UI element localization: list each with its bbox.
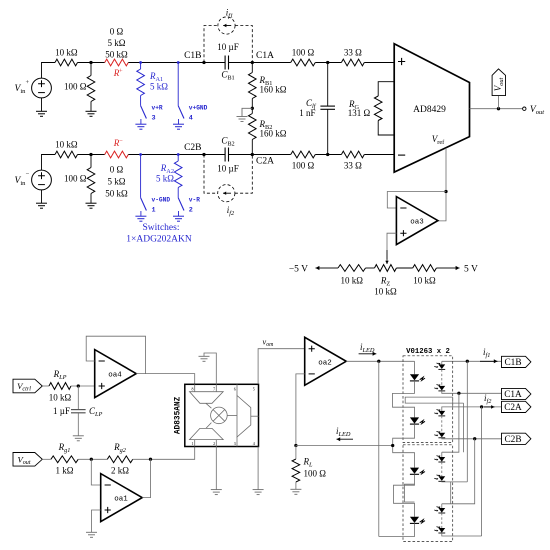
ground below Vin- <box>36 203 47 208</box>
node C2B bus <box>473 437 476 440</box>
wire CB1 to C1A <box>229 62 253 64</box>
svg-text:−: − <box>26 171 30 178</box>
svg-text:10 kΩ: 10 kΩ <box>55 48 78 58</box>
switch 1 lower stub <box>140 211 142 216</box>
arrow if1 <box>480 359 498 363</box>
wire Clf top <box>327 63 329 107</box>
oa3 plus glyph <box>400 230 406 236</box>
wire Rg2 to AD835 pin1 <box>133 447 195 460</box>
svg-text:3: 3 <box>152 115 156 123</box>
value 10k left <box>340 276 363 286</box>
node C2A <box>251 153 254 156</box>
svg-text:3: 3 <box>234 441 236 446</box>
svg-text:8: 8 <box>192 387 194 392</box>
wire 10k to node A2 <box>78 154 105 156</box>
U2 internal pin6 lead <box>236 384 238 395</box>
svg-text:+: + <box>26 79 30 86</box>
oa4 minus glyph <box>99 360 105 362</box>
wire hairpin b drop <box>463 403 465 452</box>
svg-text:1 nF: 1 nF <box>299 108 315 118</box>
tag C2B <box>502 433 531 445</box>
label vom <box>263 338 274 349</box>
photodiode PD4a <box>434 506 445 513</box>
svg-text:CB1: CB1 <box>221 70 234 82</box>
wire oa3 plus to wiper <box>387 233 396 259</box>
svg-text:AD8429: AD8429 <box>413 105 446 115</box>
tag C1A <box>502 388 531 400</box>
ground U2 pin4 <box>253 490 264 495</box>
svg-text:C2B: C2B <box>504 435 521 445</box>
U2 multiplier circle <box>211 407 228 424</box>
svg-text:if2: if2 <box>484 393 492 405</box>
wire Vin- to 10k <box>42 155 56 171</box>
capacitor CLP 1uF <box>71 410 86 413</box>
label RB2 <box>259 119 273 131</box>
node C1B <box>202 61 205 64</box>
svg-text:1 kΩ: 1 kΩ <box>56 466 74 476</box>
wire RB mid to ground <box>242 108 252 116</box>
wire Vin- to ground <box>41 190 43 203</box>
U1 plus input glyph <box>398 58 405 65</box>
ground below Vin+ <box>36 111 47 116</box>
value 5k row1 <box>108 38 126 48</box>
svg-text:5 kΩ: 5 kΩ <box>150 82 168 92</box>
node Vout junction <box>497 107 500 110</box>
tag C2A <box>502 401 531 413</box>
dashed link if2 right <box>235 155 252 194</box>
svg-text:10 kΩ: 10 kΩ <box>374 287 397 297</box>
ground RL <box>290 489 301 494</box>
wire LED left bus <box>378 361 380 536</box>
svg-text:v-GND: v-GND <box>152 197 171 204</box>
wire switch 1 tap <box>140 155 142 198</box>
dashed link PD3a-PD3b <box>441 462 443 476</box>
node C2A bus <box>480 405 483 408</box>
U2 internal pin1 lead <box>194 440 196 447</box>
wire CLP top <box>77 386 79 409</box>
current source if2 <box>218 185 235 202</box>
label Clf <box>306 98 317 110</box>
svg-text:10 kΩ: 10 kΩ <box>55 140 78 150</box>
svg-text:0 Ω: 0 Ω <box>110 27 124 37</box>
wire RG top stub <box>378 82 394 96</box>
node Vref junction <box>444 190 447 193</box>
node A2 junction <box>89 153 92 156</box>
wire RB1 to mid node <box>251 99 253 114</box>
label v+R <box>152 105 163 112</box>
wire oa4 output to AD835 pin8 <box>136 374 195 385</box>
svg-text:1: 1 <box>192 441 194 446</box>
wire RB2 to C2A <box>251 140 253 155</box>
value CB1 10uF <box>217 42 238 52</box>
svg-text:oa1: oa1 <box>114 496 128 504</box>
wire 10k to +5V <box>436 267 448 269</box>
ground below 100 row2 <box>86 203 97 208</box>
capacitor CB1 10uF <box>225 56 228 70</box>
value 33 row1 <box>344 48 362 58</box>
wire Vin+ to ground <box>41 98 43 111</box>
svg-text:CLP: CLP <box>89 406 103 418</box>
wire CB2 to C2A <box>229 154 253 156</box>
op-amp oa4 <box>95 350 137 398</box>
svg-text:RL: RL <box>303 457 314 469</box>
wire PD1a to C1B tag <box>442 360 502 362</box>
node RB mid <box>251 107 254 110</box>
resistor RG 131 <box>374 96 382 121</box>
wire -5V to 10k <box>327 267 338 269</box>
label Vin+ <box>15 84 27 95</box>
arrow if2 <box>223 192 231 195</box>
node LED bus top <box>377 360 380 363</box>
resistor 10k left <box>338 265 366 272</box>
svg-text:−: − <box>119 138 123 145</box>
U2 internal pin8 lead <box>194 384 196 391</box>
label 100 row2 <box>64 174 87 184</box>
wire C1A to 100 filter <box>252 62 290 64</box>
U2 internal pin2 lead <box>215 440 217 447</box>
resistor RB2 160k <box>249 114 257 140</box>
wire RA1 to switch 3 <box>140 96 142 106</box>
wire Clf bottom <box>327 109 329 154</box>
svg-text:33 Ω: 33 Ω <box>344 161 362 171</box>
label v+GND <box>189 105 208 112</box>
photodiode PD1b <box>434 384 445 391</box>
oa2 minus glyph <box>309 373 315 375</box>
node C2B <box>202 153 205 156</box>
wire LED1 cathode jog <box>393 381 415 418</box>
U2 label AD835ANZ <box>174 396 182 434</box>
tag Vout input <box>13 453 42 467</box>
svg-text:if1: if1 <box>226 8 233 20</box>
svg-text:oa3: oa3 <box>410 219 424 227</box>
label switch 2 <box>189 207 193 215</box>
svg-text:oa2: oa2 <box>318 359 332 367</box>
ground CLP <box>73 436 84 441</box>
svg-text:6: 6 <box>234 387 236 392</box>
capacitor Clf 1nF <box>320 106 335 109</box>
wire Vin+ to 10k resistor <box>42 63 56 79</box>
svg-text:10 kΩ: 10 kΩ <box>49 393 72 403</box>
value CB2 10uF <box>217 164 238 174</box>
value RL 100 <box>304 469 327 479</box>
svg-text:C1A: C1A <box>256 51 274 61</box>
wire RA2 to switch 2 <box>177 188 179 198</box>
resistor 33 row1 <box>341 59 364 66</box>
svg-text:if2: if2 <box>227 205 235 217</box>
arrow if2 <box>484 405 495 409</box>
label R- <box>113 138 120 148</box>
svg-text:4: 4 <box>253 441 255 446</box>
resistor 33 row2 <box>341 151 364 158</box>
wire LED3 cathode jog inner <box>405 484 415 502</box>
label if1 <box>226 8 233 20</box>
label -5V <box>289 265 308 275</box>
label CLP <box>89 406 103 418</box>
label C1A <box>256 51 274 61</box>
wire PD1b bottom to C1A <box>442 391 502 393</box>
tag Vout text <box>493 77 505 91</box>
value RB2 160k <box>260 129 287 139</box>
label C2A <box>256 157 274 167</box>
wire LED2 cathode jog <box>393 424 415 468</box>
svg-text:Vin: Vin <box>15 84 27 95</box>
value 0 ohm row2 <box>110 165 124 175</box>
svg-text:100 Ω: 100 Ω <box>64 174 87 184</box>
LED D1 <box>410 374 425 381</box>
tag Vctrl text <box>17 381 31 393</box>
LED D2 <box>410 417 425 424</box>
wire Vref pin down <box>438 148 446 221</box>
ground U2 pin7 <box>199 356 210 361</box>
U2 internal link Y <box>206 423 212 429</box>
svg-text:2 kΩ: 2 kΩ <box>111 466 129 476</box>
label RB1 <box>259 75 273 87</box>
label switch 3 <box>152 115 156 123</box>
resistor RLP 10k <box>49 383 71 390</box>
dashed link PD4a-PD4b <box>441 513 443 528</box>
svg-text:C2A: C2A <box>504 403 522 413</box>
svg-text:C1B: C1B <box>184 51 201 61</box>
label C2B <box>184 143 201 153</box>
wire 33 to amp plus <box>364 62 394 64</box>
ground switch 3 <box>135 124 146 129</box>
wire hairpin a drop <box>452 397 454 407</box>
switch 3 blade <box>141 106 147 119</box>
U2 internal link buffer-out <box>251 415 259 417</box>
dashed link if2 left <box>204 155 218 194</box>
junction switch 1 tap <box>139 153 142 156</box>
svg-text:v+R: v+R <box>152 105 163 112</box>
voltage source Vin+ <box>32 78 52 98</box>
oa4 plus glyph <box>99 383 105 389</box>
U2 input trapezoid Y <box>190 428 224 439</box>
svg-text:5: 5 <box>253 387 255 392</box>
op-amp U1 AD8429 <box>394 44 469 173</box>
label R- sup <box>119 138 123 145</box>
resistor 100 filter row2 <box>291 151 316 158</box>
optocoupler package 2 dashed box <box>403 445 453 542</box>
svg-text:2: 2 <box>213 441 215 446</box>
wire 100 row1 to ground <box>90 102 92 112</box>
photodiode PD1a <box>434 363 445 370</box>
label 10k row2 <box>55 140 78 150</box>
wire RB1 leads <box>251 63 253 73</box>
U2 pin number 4 <box>253 441 255 446</box>
switch 2 blade <box>178 198 184 211</box>
label oa1 <box>114 496 128 504</box>
U1 minus input glyph <box>398 154 405 156</box>
wire node g1 to oa1 minus <box>91 459 100 485</box>
label RA1 <box>149 71 163 83</box>
svg-text:160 kΩ: 160 kΩ <box>260 129 287 139</box>
ground switch 2 <box>173 216 184 221</box>
U2 pin number 6 <box>234 387 236 392</box>
svg-text:5 kΩ: 5 kΩ <box>108 177 126 187</box>
svg-text:100 Ω: 100 Ω <box>292 161 315 171</box>
resistor Rg1 1k <box>51 456 78 463</box>
wire 100 to node lf2 <box>315 154 341 156</box>
wire Rg1 to node1 <box>78 458 107 460</box>
oa3 minus glyph <box>400 207 406 209</box>
optocoupler package 1 dashed box <box>403 356 453 443</box>
node iLED return junction <box>391 444 394 447</box>
label 10k row1 <box>55 48 78 58</box>
node C1A bus <box>457 392 460 395</box>
wire 33 to amp minus <box>364 154 394 156</box>
svg-text:1 µF: 1 µF <box>53 406 70 416</box>
label Vin- <box>15 176 27 187</box>
label RG <box>348 99 360 111</box>
svg-text:160 kΩ: 160 kΩ <box>260 85 287 95</box>
value 50k row2 <box>105 189 128 199</box>
svg-text:50 kΩ: 50 kΩ <box>105 50 128 60</box>
value 100 filter row1 <box>292 48 315 58</box>
value Rg1 1k <box>56 466 74 476</box>
resistor R+ programmable <box>105 59 129 66</box>
wire LED4 cathode bottom <box>379 523 415 536</box>
value RG 131 <box>348 108 371 118</box>
label v-R <box>189 197 200 204</box>
value 5k row2 <box>108 177 126 187</box>
wire oa2 output to LED1 <box>346 360 414 362</box>
U2 input trapezoid X <box>190 392 224 404</box>
svg-text:oa4: oa4 <box>108 372 122 380</box>
value 100 filter row2 <box>292 161 315 171</box>
current source if1 <box>218 17 235 34</box>
U2 internal link X <box>206 403 212 408</box>
svg-text:RLP: RLP <box>53 369 67 381</box>
op-amp oa1 <box>101 474 143 522</box>
wire LED3 cathode jog outer <box>394 474 415 516</box>
wire Vout to Rg1 <box>42 458 51 460</box>
value RLP 10k <box>49 393 72 403</box>
terminal Vout <box>523 107 526 110</box>
svg-text:v+GND: v+GND <box>189 105 208 112</box>
label R+ <box>113 68 120 78</box>
wire C1B to CB1 <box>204 62 225 64</box>
svg-text:50 kΩ: 50 kΩ <box>105 189 128 199</box>
node lf1 <box>326 61 329 64</box>
wire 10k to node A1 <box>78 62 105 64</box>
svg-text:1: 1 <box>152 207 156 215</box>
svg-text:0 Ω: 0 Ω <box>110 165 124 175</box>
svg-text:5 V: 5 V <box>464 265 478 275</box>
voltage source Vin- <box>32 170 52 190</box>
resistor RL 100 <box>292 459 300 482</box>
wire RL bottom <box>295 482 297 489</box>
switch 4 blade <box>178 106 184 119</box>
ground switch 4 <box>173 124 184 129</box>
wire PD2b bottom to C2B <box>442 438 502 439</box>
dashed link if1 right <box>235 26 252 63</box>
svg-text:iLED: iLED <box>336 426 351 438</box>
wire U2 pin2 ground <box>215 447 217 490</box>
label if2 tag <box>484 393 492 405</box>
U2 output buffer <box>237 396 251 438</box>
op-amp oa3 <box>396 197 438 245</box>
svg-text:if1: if1 <box>483 347 490 359</box>
label C1B <box>184 51 201 61</box>
multiplier U2 AD835ANZ box <box>185 384 259 446</box>
ground below 100 row1 <box>86 111 97 116</box>
node lf2 <box>326 153 329 156</box>
U2 pin number 1 <box>192 441 194 446</box>
U2 pin number 5 <box>253 387 255 392</box>
wire PD3b bottom lead <box>442 480 468 483</box>
capacitor CB2 10uF <box>225 148 228 162</box>
label oa4 <box>108 372 122 380</box>
svg-text:vom: vom <box>263 338 274 349</box>
wire bus C1B to PD3b <box>466 361 468 482</box>
wire RLP to oa4 plus <box>71 385 95 387</box>
U2 internal pin7 lead <box>215 384 217 391</box>
label switch 4 <box>189 115 193 123</box>
label CB1 <box>221 70 234 82</box>
wire bus C1A to PD3a <box>442 393 459 452</box>
value 33 row2 <box>344 161 362 171</box>
ground U2 pin2 <box>211 490 222 495</box>
svg-text:131 Ω: 131 Ω <box>348 108 371 118</box>
resistor 100 row1 <box>87 76 95 102</box>
label Rg1 <box>58 442 71 454</box>
oa1 minus glyph <box>105 484 111 486</box>
dashed link PD1a-PD1b <box>441 369 443 386</box>
value RZ 10k <box>374 287 397 297</box>
svg-text:+: + <box>119 68 123 75</box>
ground RB mid <box>237 117 248 122</box>
wire 100 row2 leads <box>90 155 92 168</box>
svg-text:100 Ω: 100 Ω <box>304 469 327 479</box>
resistor RA2 5k <box>174 161 182 188</box>
resistor RA1 5k <box>137 69 145 96</box>
value RB1 160k <box>260 85 287 95</box>
switch 3 lower stub <box>140 119 142 124</box>
svg-text:AD835ANZ: AD835ANZ <box>174 396 182 434</box>
arrow -5V <box>316 266 328 270</box>
node C1B bus <box>466 360 469 363</box>
wire oa3 feedback <box>387 192 446 209</box>
photodiode PD4b <box>434 526 445 533</box>
label oa2 <box>318 359 332 367</box>
wire PD1a top lead <box>441 361 443 364</box>
U2 internal link mult-buffer <box>227 414 237 416</box>
svg-text:7: 7 <box>213 387 215 392</box>
svg-text:−5 V: −5 V <box>289 265 308 275</box>
label oa3 <box>410 219 424 227</box>
label Switches <box>143 223 180 233</box>
wire U2 pin7 <box>204 353 216 384</box>
label if2 <box>227 205 235 217</box>
svg-text:v-R: v-R <box>189 197 200 204</box>
oa1 plus glyph <box>105 507 111 513</box>
label Vin+ superscript <box>26 79 30 86</box>
label R+ sup <box>119 68 123 75</box>
wire RG bottom stub <box>378 121 394 136</box>
wire PD3a top lead <box>441 452 443 457</box>
wire Vctrl to RLP <box>42 385 49 387</box>
wire CLP to ground <box>77 413 79 436</box>
oa2 plus glyph <box>309 346 315 352</box>
svg-text:100 Ω: 100 Ω <box>292 48 315 58</box>
svg-text:10 µF: 10 µF <box>217 164 238 174</box>
wire oa2 minus loop <box>296 374 305 446</box>
svg-text:Rg2: Rg2 <box>113 442 127 454</box>
label v-GND <box>152 197 171 204</box>
svg-text:100 Ω: 100 Ω <box>64 82 87 92</box>
resistor 10k row2 <box>55 151 78 158</box>
photodiode PD3a <box>434 455 445 462</box>
svg-text:2: 2 <box>189 207 193 215</box>
